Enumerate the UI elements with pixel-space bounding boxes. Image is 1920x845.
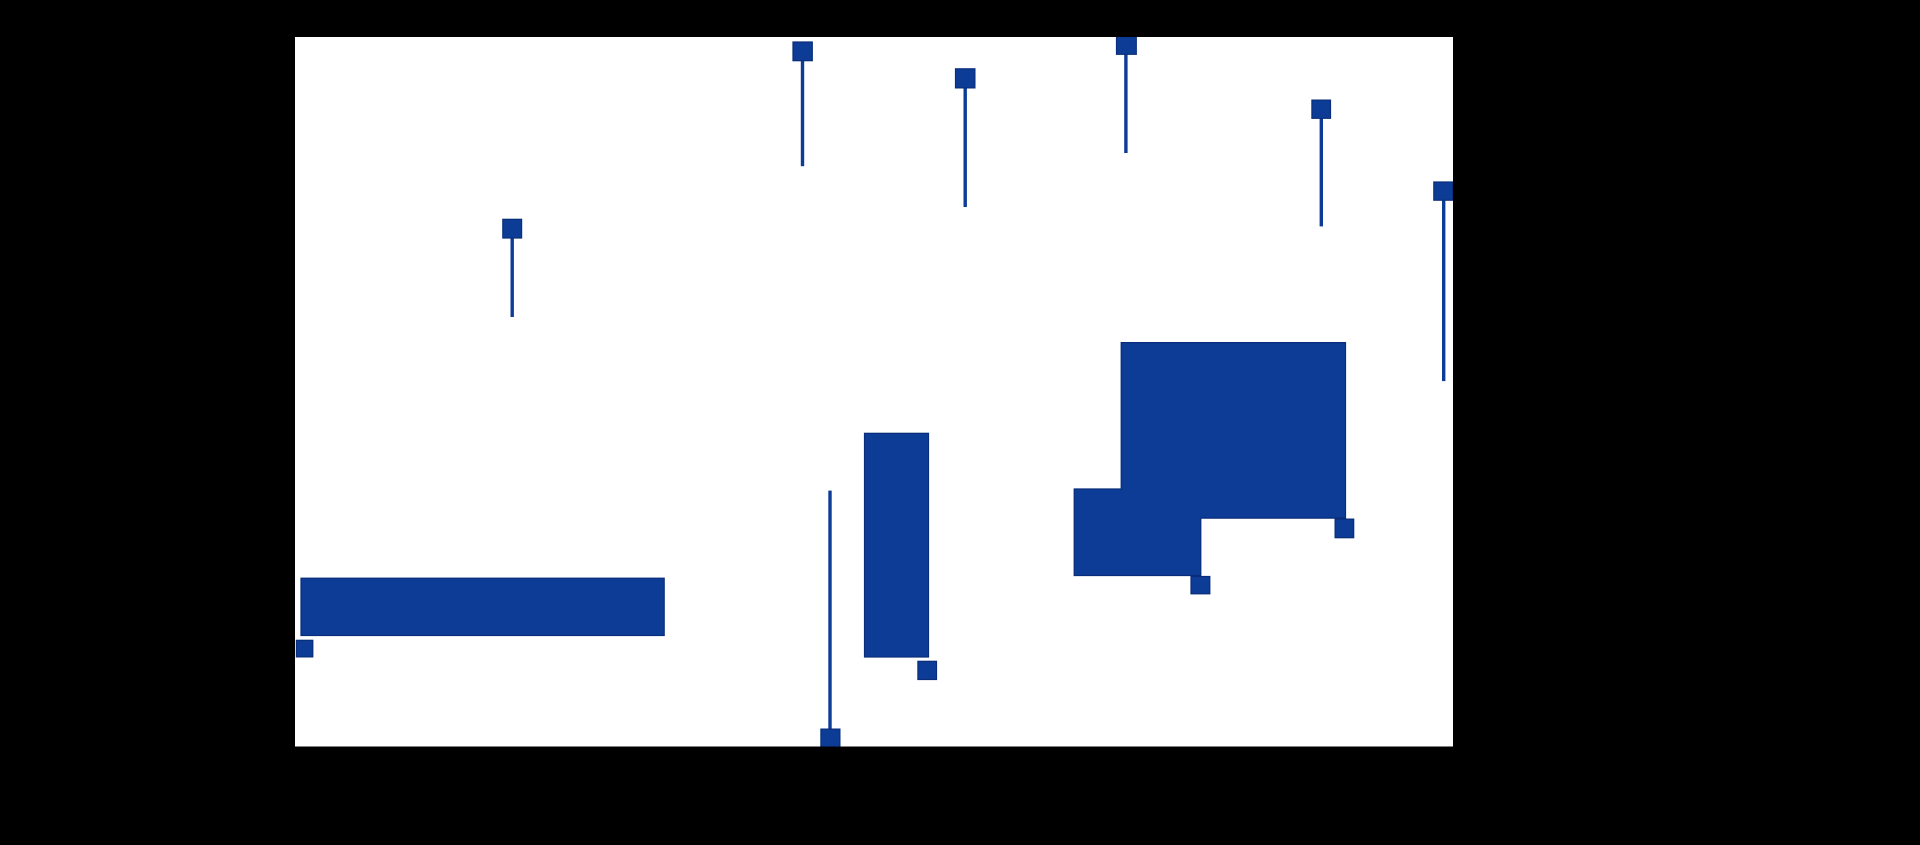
page canvas (295, 37, 1453, 747)
flag marker M1 head (793, 42, 812, 61)
block R1 (wide bottom-left rectangle) (301, 578, 664, 635)
inverted flag marker M7 head (clipped by page bottom) (821, 729, 840, 747)
flag marker M4 head (clipped by page top) (1117, 36, 1137, 55)
handle square of R1 (bottom-left corner) (296, 640, 312, 657)
flag marker M2 stem (511, 236, 514, 317)
handle square of R2 (bottom-right corner) (918, 661, 937, 679)
inverted flag marker M7 stem (828, 491, 831, 731)
flag marker M5 stem (1320, 116, 1323, 226)
flag marker M5 head (1312, 100, 1331, 118)
handle square of R3 lower rect (bottom-right corner) (1191, 577, 1210, 594)
block R3 (stepped union of two rectangles, upper right) (1074, 343, 1345, 576)
block R2 (tall middle rectangle) (865, 433, 929, 657)
flag marker M6 stem (1442, 198, 1445, 381)
handle square of R3 big rect (bottom-right corner) (1335, 519, 1354, 538)
flag marker M2 head (503, 219, 522, 238)
flag marker M6 head (1434, 182, 1453, 200)
flag marker M3 head (956, 69, 975, 88)
flag marker M3 stem (964, 86, 967, 207)
flag marker M4 stem (1124, 52, 1127, 153)
flag marker M1 stem (801, 59, 804, 166)
